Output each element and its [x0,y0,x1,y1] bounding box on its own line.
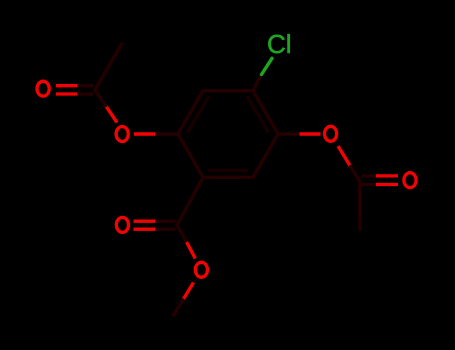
atom label O (ester oxygen) [116,127,128,142]
wire O-CH3 red half [183,283,194,301]
aromatic inner bond 3 [209,169,247,172]
wire acetyl methyl [95,44,122,90]
chlorine substituent [253,29,292,90]
wire C1-C(=O) dark [177,177,203,225]
left acetoxy group (on C2) [37,44,178,142]
aromatic inner bond 1 [188,97,209,131]
double bond C=O dark part [361,176,376,185]
wire O-CH3 dark half [174,300,183,315]
wire O-C(=O) dark half [95,90,106,106]
wire C4-Cl dark half [253,75,262,91]
wire O-C(=O) dark half [351,167,360,181]
wire C5-O red half [300,132,321,135]
wire C4-Cl green half [262,58,273,74]
atom label O (carbonyl oxygen) [116,217,128,232]
svg-text:Cl: Cl [267,29,292,59]
double bond C=O dark part [155,221,175,229]
double bond C=O red part [56,86,77,94]
benzene ring C1-C6 (dark carbon skeleton) [178,91,278,178]
wire C-O dark half [177,225,187,242]
double bond C=O red part [376,176,398,185]
double bond C=O dark part [77,86,93,94]
wire C2-O red half [134,132,155,135]
aromatic inner bond 2 [248,97,269,131]
wire O-C(=O) red half [106,106,117,123]
double bond C=O red part [134,221,156,229]
atom label O (carbonyl oxygen) [37,81,49,96]
atom label O (ester oxygen) [325,126,337,141]
wire C2-O dark half [155,132,178,135]
wire acetyl methyl [358,180,362,229]
atom label O (ester oxygen) [195,262,207,277]
right acetoxy group (on C5) [278,126,416,229]
atom label O (carbonyl oxygen) [404,173,416,188]
wire O-C(=O) red half [338,146,351,167]
wire C5-O dark half [278,132,300,135]
wire C-O red half [187,242,196,259]
methyl ester group (on C1, bottom) [116,177,207,315]
